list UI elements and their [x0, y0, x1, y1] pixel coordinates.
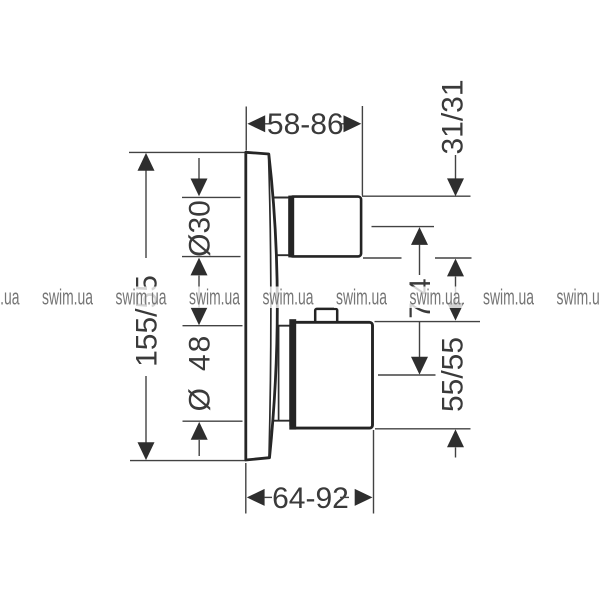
svg-text:swim.ua: swim.ua — [557, 285, 600, 310]
extension line top-knob bottom edge right (right part) — [435, 257, 472, 259]
arrow up Ø30 (below) — [191, 258, 208, 276]
extension line 58-86 right — [361, 106, 363, 196]
svg-text:swim.ua: swim.ua — [189, 285, 240, 310]
stem line bottom knob upper (under plate) — [273, 325, 291, 327]
stub left 58-86 — [265, 123, 271, 125]
svg-text:swim.ua: swim.ua — [336, 285, 387, 310]
bottom knob left face thick bar — [289, 319, 296, 429]
arrow down Ø30 — [191, 179, 208, 197]
top knob body U-handle — [290, 197, 362, 257]
svg-text:swim.ua: swim.ua — [263, 285, 314, 310]
extension line 58-86 left — [245, 107, 247, 151]
dimension 31/31 tail — [455, 155, 457, 180]
extension line bottom of 155/55 — [130, 460, 246, 462]
stem line top knob lower (runs under plate) — [273, 254, 290, 256]
svg-text:31/31: 31/31 — [437, 79, 470, 154]
svg-text:55/55: 55/55 — [437, 337, 470, 412]
dimension 155/55 vertical line upper segment — [145, 158, 147, 258]
extension line Ø30 top — [182, 196, 241, 198]
extension line Ø30 bottom — [182, 256, 241, 258]
dimension Ø30 tail above — [198, 158, 200, 181]
extension line 64-92 left — [245, 463, 247, 514]
svg-text:swim.ua: swim.ua — [42, 285, 93, 310]
arrow down 31/31 — [447, 178, 464, 196]
top knob left face thick bar — [288, 196, 294, 258]
extension line Ø48 bottom — [183, 420, 243, 422]
centerline bottom knob right — [378, 374, 436, 376]
stub right 64-92 — [340, 496, 349, 498]
escutcheon plate (white filled, covers stem lines) — [246, 152, 278, 460]
arrow down Ø48 — [191, 307, 208, 325]
arrow left 58-86 — [247, 115, 265, 132]
arrow right 64-92 — [355, 489, 373, 506]
bottom knob tab (temperature stop) — [315, 309, 337, 323]
plate inner front-face curve — [269, 155, 271, 458]
svg-text:swim.ua: swim.ua — [410, 285, 461, 310]
extension line Ø48 top — [183, 325, 243, 327]
svg-text:64-92: 64-92 — [272, 482, 349, 515]
extension line top-knob bottom edge right (left part) — [363, 257, 402, 259]
svg-text:swim.ua: swim.ua — [483, 285, 534, 310]
arrow up 155/55 — [138, 153, 155, 171]
bottom knob body — [291, 322, 373, 428]
shared tail between gap arrows — [455, 277, 457, 304]
dimension Ø48 tail below — [198, 440, 200, 456]
extension line 64-92 right — [373, 430, 375, 514]
arrow left 64-92 — [247, 489, 265, 506]
centerline top knob right — [372, 226, 435, 228]
extension line top-knob top edge to right — [362, 195, 471, 197]
dimension 74 arrow up — [411, 227, 428, 245]
extension line top of 155/55 — [129, 151, 246, 153]
shared tail between Ø30 and Ø48 arrows — [198, 276, 200, 310]
watermark row — [0, 285, 600, 310]
svg-text:Ø30: Ø30 — [184, 200, 217, 257]
arrow right 58-86 — [344, 115, 362, 132]
dimension 155/55 vertical line lower segment — [145, 376, 147, 455]
extension line bottom-knob bottom edge right — [375, 428, 471, 430]
svg-text:swim.ua: swim.ua — [116, 285, 167, 310]
dimension 74 arrow down — [411, 357, 428, 375]
stem left edge bottom knob — [278, 326, 280, 421]
dimension 74 line lower — [419, 322, 421, 358]
stem line top knob upper (runs under plate) — [273, 197, 290, 199]
arrow down 155/55 — [138, 442, 155, 460]
svg-text:swim.ua: swim.ua — [0, 285, 20, 310]
extension line bottom-knob top edge right — [375, 321, 481, 323]
dimension 74 line upper — [419, 245, 421, 276]
stem line bottom knob lower (under plate) — [273, 420, 291, 422]
dimension 55/55 tail below — [455, 447, 457, 457]
stub left 64-92 — [264, 496, 272, 498]
svg-text:58-86: 58-86 — [267, 108, 344, 141]
arrow up 55/55 (below bottom edge) — [447, 429, 464, 447]
arrow up Ø48 (below) — [191, 422, 208, 440]
arrow up gap (below top-knob bottom line) — [447, 259, 464, 277]
arrow down gap (above bottom-knob top line) — [447, 303, 464, 321]
stub right 58-86 — [341, 123, 347, 125]
